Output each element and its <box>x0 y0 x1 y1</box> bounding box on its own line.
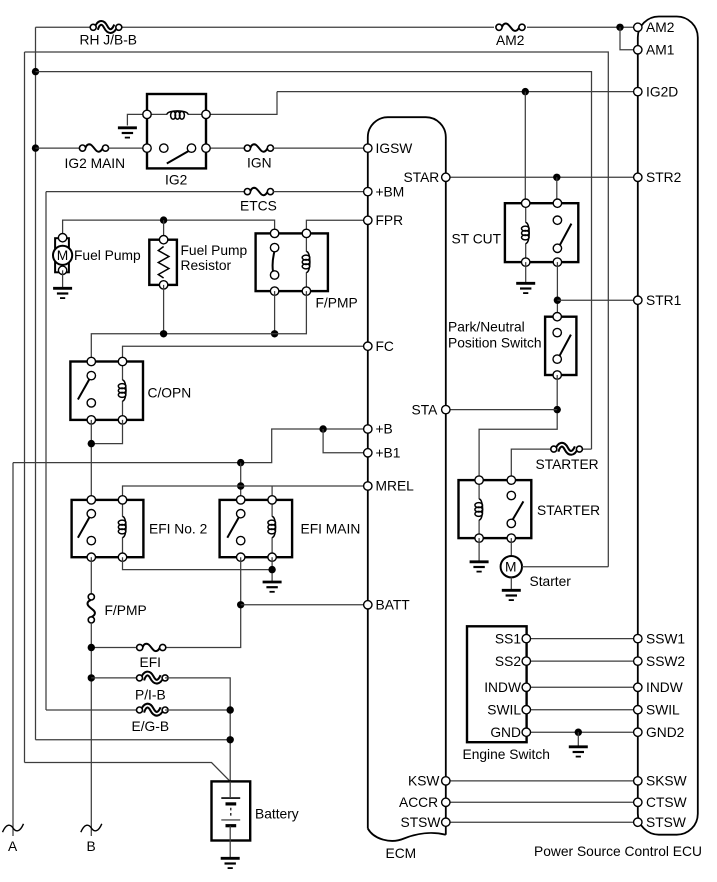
svg-text:E/G-B: E/G-B <box>132 719 170 734</box>
pin SS2 <box>522 657 530 665</box>
svg-text:Resistor: Resistor <box>181 258 232 273</box>
wire: fuse to IG2 relay <box>108 147 147 149</box>
svg-text:Engine Switch: Engine Switch <box>463 747 550 762</box>
svg-text:RH J/B-B: RH J/B-B <box>80 33 138 48</box>
wire: AM2 feed line y=739.8 <box>36 739 231 741</box>
ground EFI relay coils <box>263 582 282 592</box>
fusible link P/I-B <box>137 673 169 681</box>
pin STSW ECU <box>634 818 642 826</box>
wire: FPR pin to F/PMP coil <box>306 220 367 233</box>
fuse IGN <box>244 144 273 151</box>
svg-text:STSW: STSW <box>646 815 686 830</box>
junction resistor to rail <box>160 330 167 337</box>
svg-text:FC: FC <box>376 339 394 354</box>
junction x35.5/y71.6 <box>32 68 39 75</box>
wire: STR1 line <box>557 299 633 301</box>
ground starter motor <box>502 590 521 600</box>
wire: E/G-B line left <box>46 709 140 711</box>
svg-text:AM1: AM1 <box>646 43 674 58</box>
junction BATT tap <box>237 601 244 608</box>
svg-text:Power Source Control ECU: Power Source Control ECU <box>534 844 702 859</box>
connector tail A squiggle <box>3 824 24 832</box>
pin GND <box>522 728 530 736</box>
wire: left vertical bus x=35.5 <box>35 27 37 740</box>
wire: C/OPN bottom to EFI No.2 switch <box>90 420 92 500</box>
coil STARTER <box>478 480 480 538</box>
svg-text:MREL: MREL <box>376 479 415 494</box>
pin AM1 ECU <box>634 46 642 54</box>
wire: E/G-B to battery bus <box>165 709 230 711</box>
pin +B1 <box>364 449 372 457</box>
coil C/OPN <box>122 362 124 420</box>
relay IG2 <box>118 94 210 168</box>
pin SKSW ECU <box>634 777 642 785</box>
junction EFI tap <box>88 644 95 651</box>
ground engine switch <box>569 747 588 757</box>
wire: resistor top stub <box>163 220 165 240</box>
junction MREL line <box>237 482 244 489</box>
wire: F/PMP switch bottom stub <box>274 291 276 334</box>
wire: jumper AM2 to AM1 <box>620 27 634 50</box>
wire: starter motor to ground <box>510 577 512 590</box>
svg-text:ACCR: ACCR <box>399 795 438 810</box>
svg-text:SWIL: SWIL <box>646 702 680 717</box>
switch blade EFI MAIN <box>227 517 239 538</box>
junction IG2 MAIN tap <box>32 144 39 151</box>
coil IG2 <box>147 113 206 115</box>
ground battery <box>221 858 240 868</box>
svg-text:C/OPN: C/OPN <box>148 386 192 401</box>
wire: IG2 relay to IGN fuse <box>206 147 245 149</box>
pin SWIL ECU <box>634 706 642 714</box>
junction at AM2 line <box>616 24 623 31</box>
ground STARTER coil <box>470 562 489 572</box>
wire: EFI MAIN switch feed x=240.7 <box>240 463 242 500</box>
battery BT1 <box>212 781 251 840</box>
fusible link STARTER <box>551 445 583 453</box>
svg-text:Fuel Pump: Fuel Pump <box>74 248 141 263</box>
fuse ETCS <box>244 188 273 195</box>
pin SS1 <box>522 634 530 642</box>
pin STR2 ECU <box>634 173 642 181</box>
junction STR1 <box>554 297 561 304</box>
coil EFI No.2 <box>122 500 124 557</box>
wire: ST CUT switch down through STR1 to P/N switch <box>556 262 558 317</box>
coil ST CUT <box>525 203 527 262</box>
junction STAR branch <box>553 174 560 181</box>
junction +B branch down <box>237 459 244 466</box>
pin SWIL <box>522 706 530 714</box>
svg-text:GND2: GND2 <box>646 725 684 740</box>
pin FC <box>364 342 372 350</box>
svg-text:+B1: +B1 <box>376 446 401 461</box>
pin INDW <box>522 683 530 691</box>
pin FPR <box>364 216 372 224</box>
fuel pump motor M1 <box>53 234 72 275</box>
pin IG2D ECU <box>634 87 642 95</box>
wire: STARTER coil to ground <box>478 538 480 561</box>
pin BATT <box>364 601 372 609</box>
wire: connector A vertical x=13 <box>12 463 14 836</box>
starter motor M2 <box>501 556 522 577</box>
wire: +B1 jumper <box>323 429 368 453</box>
wire: fuel pump to ground <box>62 270 64 288</box>
fusible link E/G-B <box>137 706 169 714</box>
pin SSW2 ECU <box>634 657 642 665</box>
coil F/PMP <box>305 233 307 291</box>
svg-text:M: M <box>505 560 517 575</box>
svg-text:SS1: SS1 <box>495 631 521 646</box>
svg-text:EFI: EFI <box>140 655 161 670</box>
wire: EFI No.2 switch to F/PMP fuse <box>90 557 92 595</box>
svg-text:M: M <box>57 248 68 263</box>
park/neutral position switch S1 <box>545 313 576 380</box>
svg-text:AM2: AM2 <box>646 20 674 35</box>
wire: MREL line to relay coils <box>123 486 368 500</box>
relay ST CUT <box>505 199 578 266</box>
wire: EFI MAIN coil riser <box>271 486 273 500</box>
engine switch SW1 <box>467 626 527 742</box>
junction +B1 tap <box>319 425 326 432</box>
wire: IG2D to ST CUT coil <box>524 92 526 204</box>
wire: ST CUT coil to ground <box>525 262 527 283</box>
wire: starter motor to frame branch <box>522 566 608 568</box>
pin +BM <box>364 187 372 195</box>
fuse AM2 <box>496 24 525 31</box>
wire: INDW line <box>526 686 634 688</box>
svg-text:SSW1: SSW1 <box>646 631 685 646</box>
junction STA <box>554 406 561 413</box>
switch blade C/OPN <box>78 379 90 400</box>
svg-text:STSW: STSW <box>401 815 441 830</box>
pin GND2 ECU <box>634 728 642 736</box>
wire: IG2 coil to IG2D riser <box>206 92 277 115</box>
wire: SWIL line <box>526 709 634 711</box>
fuse IG2 MAIN <box>79 144 108 151</box>
svg-text:SKSW: SKSW <box>646 774 687 789</box>
ground IG2 coil <box>118 128 137 138</box>
junction C/OPN bottoms <box>88 440 95 447</box>
svg-text:F/PMP: F/PMP <box>105 603 147 618</box>
junction GND ground tap <box>575 729 582 736</box>
svg-text:+BM: +BM <box>376 184 405 199</box>
wire: STAR to ST CUT switch <box>556 177 558 203</box>
wire: SS1 line <box>526 638 634 640</box>
wire: IG2D line y=91.6 <box>277 91 634 93</box>
svg-text:IG2 MAIN: IG2 MAIN <box>65 156 126 171</box>
switch blade ST CUT <box>559 224 571 247</box>
wire: lower rail y=334 with C/OPN riser and coil return <box>91 291 306 361</box>
svg-text:STAR: STAR <box>404 170 440 185</box>
svg-text:EFI MAIN: EFI MAIN <box>301 522 361 537</box>
switch blade STARTER <box>512 501 524 521</box>
power source control ECU box U2 <box>638 17 698 835</box>
relay STARTER <box>459 476 532 542</box>
wire: STARTER switch to motor <box>510 538 512 556</box>
wire: ETCS line left <box>46 191 245 193</box>
wire: EFI fuse to B bus <box>91 647 136 649</box>
wire: IG2 MAIN line <box>36 147 80 149</box>
svg-text:GND: GND <box>490 725 521 740</box>
wire: KSW line <box>446 780 634 782</box>
fusible link RH J/B-B <box>90 23 122 31</box>
junction coil grounds <box>268 566 275 573</box>
wire: EFI No.2 coil to common ground <box>123 557 273 569</box>
pin STR1 ECU <box>634 296 642 304</box>
wire: ACCR line <box>446 801 634 803</box>
wire: P/N bottom through STA junction to STARTER coil <box>479 375 557 480</box>
svg-text:EFI No. 2: EFI No. 2 <box>149 522 207 537</box>
pin KSW <box>442 777 450 785</box>
switch blade IG2 <box>167 151 190 164</box>
svg-text:Position Switch: Position Switch <box>448 336 542 351</box>
svg-text:STARTER: STARTER <box>537 503 600 518</box>
wire: ETCS battery feed vertical x=46 <box>45 192 47 710</box>
svg-text:+B: +B <box>376 422 393 437</box>
wire: ETCS fuse to +BM pin <box>273 191 368 193</box>
svg-text:INDW: INDW <box>646 680 683 695</box>
junction E/G-B at battery bus <box>227 706 234 713</box>
switch blade EFI No.2 <box>78 517 90 538</box>
pin IGSW <box>364 144 372 152</box>
relay EFI MAIN <box>220 496 293 562</box>
pin IG2 coil right <box>202 110 210 118</box>
svg-text:INDW: INDW <box>484 680 521 695</box>
ground ST CUT coil <box>516 283 535 293</box>
pin STA <box>442 405 450 413</box>
svg-text:Fuel Pump: Fuel Pump <box>181 243 248 258</box>
svg-text:SWIL: SWIL <box>487 702 521 717</box>
wire: FC pin to C/OPN coil <box>123 346 368 361</box>
svg-text:Starter: Starter <box>530 574 572 589</box>
resistor R1 fuel pump resistor <box>149 236 177 290</box>
ground fuel pump <box>53 288 72 298</box>
wire: IG2 coil ground link <box>127 114 147 125</box>
wire: resistor bottom to rail y=334 <box>163 285 165 334</box>
wire: battery to ground <box>229 841 231 859</box>
svg-text:IGSW: IGSW <box>376 141 413 156</box>
wire: connector B vertical <box>90 622 92 836</box>
wire: EFI MAIN switch down to EFI fuse line <box>166 557 241 647</box>
svg-text:B: B <box>87 839 96 854</box>
connector tail B squiggle <box>81 824 102 832</box>
pin +B <box>364 425 372 433</box>
svg-text:STARTER: STARTER <box>536 457 599 472</box>
svg-text:AM2: AM2 <box>496 33 524 48</box>
wire: STA line <box>446 409 557 411</box>
svg-text:STR1: STR1 <box>646 293 681 308</box>
wire: frame line y=52 to starter motor branch <box>25 52 609 567</box>
pin SSW1 ECU <box>634 634 642 642</box>
pin IG2 switch left <box>143 144 151 152</box>
svg-text:Battery: Battery <box>255 807 299 822</box>
pin INDW ECU <box>634 683 642 691</box>
switch blade P/N <box>559 335 571 357</box>
junction y739.8 at battery bus <box>227 736 234 743</box>
pin IG2 coil left <box>143 110 151 118</box>
svg-text:SS2: SS2 <box>495 654 521 669</box>
wire: line y=71.6 to starter fuse branch <box>36 72 592 450</box>
svg-text:KSW: KSW <box>408 774 439 789</box>
wire: BATT line <box>241 604 368 606</box>
fuse F/PMP <box>88 594 95 623</box>
junction F/PMP switch to rail <box>271 330 278 337</box>
ECM box <box>368 117 446 841</box>
svg-text:SSW2: SSW2 <box>646 654 685 669</box>
relay EFI No. 2 <box>72 496 144 562</box>
wire: IGN fuse to IGSW pin <box>273 147 368 149</box>
contact IG2 a <box>160 144 168 152</box>
wire: P/I-B line left <box>91 677 139 679</box>
svg-text:FPR: FPR <box>376 213 404 228</box>
wire: top AM2 feed line y=27 <box>36 26 90 28</box>
wire: STSW line <box>446 821 634 823</box>
wire: STAR to STR2 line <box>446 176 634 178</box>
pin CTSW ECU <box>634 798 642 806</box>
svg-text:Park/Neutral: Park/Neutral <box>448 320 525 335</box>
pin STSW <box>442 818 450 826</box>
pin MREL <box>364 482 372 490</box>
pin ACCR <box>442 798 450 806</box>
svg-text:ETCS: ETCS <box>240 199 277 214</box>
svg-text:STA: STA <box>412 402 439 417</box>
svg-text:BATT: BATT <box>376 598 411 613</box>
pin STAR <box>442 173 450 181</box>
wire: connector A feed to +B <box>13 429 368 463</box>
svg-text:ECM: ECM <box>386 846 417 861</box>
wire: left vertical bus x=24.5 <box>24 52 26 763</box>
relay C/OPN <box>70 357 143 424</box>
pin AM2 ECU <box>634 23 642 31</box>
svg-text:IG2: IG2 <box>165 173 187 188</box>
wire: C/OPN coil bottom join <box>91 420 122 444</box>
fuse EFI <box>137 644 166 651</box>
wire: fuel pump supply rail y=220 <box>63 220 275 234</box>
svg-text:A: A <box>8 839 18 854</box>
wire: STARTER fuse line <box>511 449 591 480</box>
wire: P/I-B to battery bus <box>165 678 230 782</box>
wire: SS2 line <box>526 660 634 662</box>
svg-text:IG2D: IG2D <box>646 84 678 99</box>
svg-text:CTSW: CTSW <box>646 795 687 810</box>
svg-text:STR2: STR2 <box>646 170 681 185</box>
junction P/I-B tap <box>88 674 95 681</box>
svg-text:F/PMP: F/PMP <box>316 296 358 311</box>
wire: GND line <box>526 731 634 733</box>
switch blade F/PMP <box>273 252 275 272</box>
wire: starter feed y=762.5 with diagonal to battery <box>25 763 231 782</box>
svg-text:IGN: IGN <box>247 156 272 171</box>
svg-text:ST CUT: ST CUT <box>452 232 502 247</box>
relay F/PMP <box>256 229 328 295</box>
pin IG2 switch right <box>202 144 210 152</box>
coil EFI MAIN <box>271 500 273 557</box>
svg-text:P/I-B: P/I-B <box>135 688 166 703</box>
wire: GND stub <box>577 732 579 746</box>
junction IG2D branch <box>522 88 529 95</box>
wire: EFI MAIN coil ground stub <box>271 557 273 581</box>
junction rail to resistor <box>160 216 167 223</box>
contact IG2 b <box>187 144 195 152</box>
